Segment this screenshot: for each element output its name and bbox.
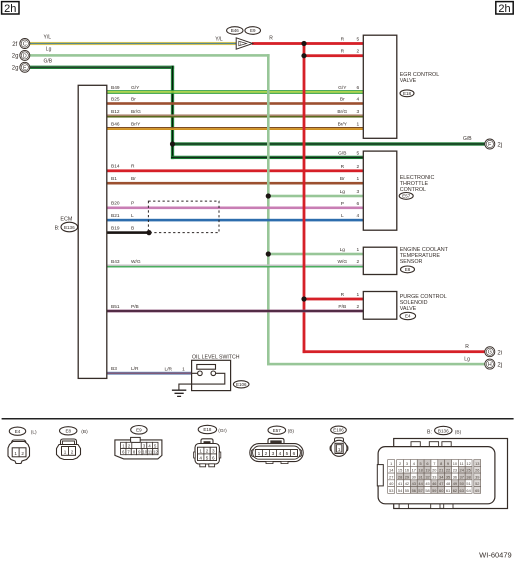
svg-text:2j: 2j	[497, 363, 502, 369]
wire L/R B3 to oil level switch pin 1	[107, 372, 192, 375]
wire Lg branch to coolant sensor pin 1	[268, 253, 363, 256]
junction dot R at EGR pin2 branch	[301, 53, 306, 58]
svg-text:G/Y: G/Y	[338, 85, 347, 91]
svg-text:18: 18	[418, 468, 422, 473]
wire Lg branch to throttle control pin 3	[268, 195, 363, 198]
oil level switch float bar	[197, 365, 216, 370]
svg-text:R: R	[341, 164, 345, 170]
svg-text:65: 65	[475, 488, 479, 493]
wire Br B25 to EGR valve pin 4	[107, 102, 364, 105]
wire Br/Y B46 to EGR valve pin 1	[107, 127, 364, 130]
svg-text:E106: E106	[236, 382, 247, 387]
svg-text:3: 3	[272, 451, 275, 457]
svg-text:8: 8	[440, 461, 442, 466]
svg-text:2: 2	[357, 259, 360, 265]
svg-text:R: R	[341, 292, 345, 298]
svg-text:2g: 2g	[12, 54, 19, 60]
svg-text:(Gr): (Gr)	[218, 428, 227, 434]
svg-text:WI-60479: WI-60479	[479, 551, 512, 560]
oval E4 bottom	[9, 427, 25, 435]
wire B B19 to shield	[107, 231, 150, 234]
svg-text:26: 26	[475, 468, 479, 473]
svg-text:Lg: Lg	[340, 189, 346, 195]
svg-text:53: 53	[389, 488, 393, 493]
svg-text:3: 3	[406, 461, 408, 466]
connector E9 drawing	[115, 437, 162, 459]
wire R B14 to throttle control pin 2	[107, 169, 364, 172]
svg-text:3: 3	[212, 449, 215, 454]
svg-text:1: 1	[338, 447, 341, 452]
ECM box	[78, 85, 107, 378]
svg-text:5: 5	[206, 455, 209, 460]
connector E106 drawing	[330, 438, 348, 457]
wire Br/G B12 to EGR valve pin 3	[107, 114, 364, 117]
svg-text:61: 61	[446, 488, 450, 493]
svg-text:E57: E57	[273, 428, 282, 433]
connector E8 drawing	[57, 439, 81, 460]
svg-text:2j: 2j	[497, 143, 502, 149]
svg-text:(B): (B)	[455, 429, 462, 435]
svg-text:Br: Br	[131, 176, 136, 182]
terminal C	[20, 39, 30, 49]
svg-text:6: 6	[426, 461, 428, 466]
svg-text:48: 48	[446, 481, 450, 486]
svg-text:15: 15	[398, 468, 402, 473]
svg-text:2: 2	[399, 461, 401, 466]
svg-text:1: 1	[240, 42, 242, 46]
svg-text:2h: 2h	[4, 3, 16, 15]
svg-text:52: 52	[475, 481, 479, 486]
wire P/B B51 to purge valve pin 2	[107, 310, 364, 313]
oval E57 bottom	[268, 426, 286, 434]
svg-text:R: R	[131, 164, 135, 170]
svg-text:E4: E4	[405, 314, 411, 319]
terminal H	[485, 359, 495, 369]
svg-text:37: 37	[460, 474, 464, 479]
svg-text:1: 1	[199, 449, 202, 454]
terminal E	[20, 62, 30, 72]
svg-text:28: 28	[398, 474, 402, 479]
wire L B21 to throttle control pin 4	[107, 219, 364, 222]
svg-text:R: R	[341, 37, 345, 43]
engine coolant temperature sensor label	[400, 247, 449, 265]
svg-text:Y/L: Y/L	[44, 35, 52, 41]
svg-text:(B): (B)	[288, 429, 295, 435]
svg-text:1: 1	[357, 122, 360, 128]
wire P B20 to throttle control pin 6	[107, 207, 364, 210]
svg-text:G/B: G/B	[44, 58, 53, 64]
purge control solenoid valve box	[363, 292, 397, 320]
oval E9 bottom	[131, 426, 147, 435]
svg-text:11: 11	[460, 461, 464, 466]
svg-text:THROTTLE: THROTTLE	[400, 181, 429, 187]
svg-text:C: C	[23, 42, 27, 48]
svg-text:Br: Br	[340, 176, 345, 182]
svg-text:2f: 2f	[12, 42, 17, 48]
oval E106 bottom	[331, 426, 347, 434]
svg-text:B1: B1	[111, 176, 117, 182]
svg-text:21: 21	[439, 468, 443, 473]
EGR control valve label	[400, 72, 440, 84]
terminal D	[20, 50, 30, 60]
svg-text:7: 7	[433, 461, 435, 466]
wire G/B to throttle control pin 5	[171, 156, 363, 159]
wire R from noise filter to EGR valve pin 5	[252, 42, 363, 45]
connector E57 drawing	[250, 438, 303, 463]
svg-text:B136: B136	[64, 225, 75, 230]
wire Y/L from connector C to noise filter	[30, 42, 237, 45]
wire R branch to purge valve pin 1	[304, 298, 363, 301]
svg-text:2: 2	[357, 304, 360, 310]
svg-text:2i: 2i	[497, 350, 502, 356]
grid label 2h top-left	[2, 2, 19, 15]
svg-text:59: 59	[432, 488, 436, 493]
svg-text:49: 49	[453, 481, 457, 486]
svg-text:1: 1	[390, 461, 392, 466]
svg-text:R: R	[269, 36, 273, 42]
svg-text:TEMPERATURE: TEMPERATURE	[400, 253, 441, 259]
svg-text:9: 9	[447, 461, 449, 466]
svg-text:B43: B43	[111, 259, 120, 265]
svg-text:E8: E8	[65, 428, 71, 433]
svg-text:B: B	[131, 226, 134, 232]
svg-text:5: 5	[420, 461, 422, 466]
svg-text:W/G: W/G	[338, 259, 348, 265]
svg-text:39: 39	[475, 474, 479, 479]
wire Lg from connector D	[30, 54, 270, 57]
grid label 2h top-right	[496, 2, 513, 15]
connector B136 drawing	[377, 439, 507, 509]
svg-text:L/R: L/R	[165, 367, 173, 373]
svg-text:P: P	[131, 201, 134, 207]
wire G/B vertical riser	[171, 66, 174, 159]
svg-text:16: 16	[405, 468, 409, 473]
wire R branch to EGR valve pin 2	[304, 54, 363, 57]
svg-text:B20: B20	[111, 201, 120, 207]
wire R vertical riser	[303, 42, 306, 353]
svg-text:G/B: G/B	[463, 136, 472, 142]
wire Lg to connector H	[267, 363, 485, 366]
svg-text:2h: 2h	[498, 3, 510, 15]
oval E4	[400, 312, 416, 319]
svg-text:57: 57	[418, 488, 422, 493]
svg-text:B25: B25	[111, 96, 120, 102]
svg-text:G: G	[488, 350, 492, 356]
junction dot R branch to purge valve	[301, 296, 306, 301]
separator line	[2, 418, 514, 420]
svg-text:Br/G: Br/G	[337, 109, 347, 115]
svg-text:1: 1	[357, 176, 360, 182]
oval E8	[401, 266, 415, 273]
connector E4 drawing	[8, 440, 30, 464]
svg-text:Br: Br	[340, 97, 345, 103]
svg-text:VALVE: VALVE	[400, 78, 417, 84]
svg-text:ELECTRONIC: ELECTRONIC	[400, 175, 435, 181]
svg-text:Lg: Lg	[464, 357, 470, 363]
svg-text:46: 46	[432, 481, 436, 486]
svg-text:2: 2	[265, 451, 268, 457]
svg-text:1: 1	[14, 451, 17, 456]
svg-text:EGR CONTROL: EGR CONTROL	[400, 72, 440, 78]
svg-text:33: 33	[432, 474, 436, 479]
oval E106	[233, 381, 249, 388]
svg-text:R: R	[465, 344, 469, 350]
svg-text:W/G: W/G	[131, 259, 141, 265]
svg-text:31: 31	[418, 474, 422, 479]
svg-text:Br/Y: Br/Y	[131, 121, 141, 127]
oval E57	[399, 193, 413, 200]
svg-text:22: 22	[446, 468, 450, 473]
shielded-cable dashed box	[148, 201, 219, 233]
oil level switch box	[192, 360, 231, 390]
svg-text:2: 2	[21, 451, 24, 456]
ECM connector ref B:B136	[55, 222, 78, 232]
in-line connector triangle B46/E9	[236, 38, 253, 49]
svg-text:Br: Br	[131, 96, 136, 102]
svg-text:Lg: Lg	[340, 247, 346, 253]
svg-text:51: 51	[466, 481, 470, 486]
svg-text:1: 1	[357, 247, 360, 253]
svg-text:Br/Y: Br/Y	[338, 122, 348, 128]
junction dot B19 shield connection	[146, 230, 151, 235]
svg-text:4: 4	[357, 97, 360, 103]
svg-text:Y/L: Y/L	[215, 36, 223, 42]
wire W/G B43 to coolant sensor pin 2	[107, 265, 364, 268]
svg-text:4: 4	[199, 455, 202, 460]
connector E18 drawing	[194, 439, 221, 467]
junction dot Lg branch to coolant sensor	[266, 251, 271, 256]
svg-text:E18: E18	[403, 91, 412, 96]
ground symbol	[172, 390, 186, 396]
svg-text:5: 5	[357, 150, 360, 156]
svg-text:D: D	[23, 53, 27, 59]
EGR control valve box	[363, 35, 397, 138]
oval B46	[227, 27, 243, 35]
oval E18	[400, 90, 414, 97]
svg-text:6: 6	[212, 455, 215, 460]
svg-text:E: E	[23, 65, 27, 71]
svg-text:VALVE: VALVE	[400, 306, 417, 312]
svg-text:12: 12	[153, 450, 158, 455]
svg-text:3: 3	[357, 109, 360, 115]
svg-text:42: 42	[405, 481, 409, 486]
svg-text:B19: B19	[111, 226, 120, 232]
svg-text:B14: B14	[111, 164, 120, 170]
wire Lg vertical riser	[267, 54, 270, 365]
svg-text:ECM: ECM	[60, 216, 72, 222]
svg-text:B46: B46	[111, 121, 120, 127]
svg-text:6: 6	[357, 201, 360, 207]
svg-text:Lg: Lg	[46, 47, 52, 53]
oil level switch contacts and internal wiring	[179, 371, 225, 390]
svg-text:L/R: L/R	[131, 366, 139, 372]
svg-text:36: 36	[453, 474, 457, 479]
svg-text:B51: B51	[111, 304, 120, 310]
svg-text:6: 6	[357, 85, 360, 91]
svg-text:Br/G: Br/G	[131, 109, 141, 115]
svg-text:47: 47	[439, 481, 443, 486]
svg-text:B:: B:	[427, 429, 432, 435]
oval E8 bottom	[59, 427, 76, 435]
electronic throttle control box	[363, 151, 397, 230]
wire R to connector G	[303, 350, 485, 353]
svg-text:E57: E57	[402, 194, 411, 199]
svg-text:E9: E9	[136, 427, 142, 432]
engine coolant temperature sensor box	[363, 247, 397, 274]
svg-text:43: 43	[412, 481, 416, 486]
svg-text:32: 32	[425, 474, 429, 479]
svg-text:45: 45	[425, 481, 429, 486]
svg-text:12: 12	[466, 461, 470, 466]
wire G/Y B49 to EGR valve pin 6	[107, 90, 364, 94]
svg-text:5: 5	[357, 37, 360, 43]
svg-text:5: 5	[286, 451, 289, 457]
svg-text:1: 1	[182, 367, 185, 373]
svg-text:55: 55	[405, 488, 409, 493]
svg-text:38: 38	[466, 474, 470, 479]
svg-text:P/B: P/B	[131, 304, 139, 310]
svg-text:B46: B46	[231, 28, 240, 33]
svg-text:E8: E8	[405, 267, 411, 272]
purge control solenoid valve label	[400, 294, 447, 312]
svg-text:1: 1	[357, 292, 360, 298]
svg-text:1: 1	[64, 450, 67, 455]
svg-text:G/B: G/B	[338, 150, 346, 156]
electronic throttle control label	[400, 175, 435, 193]
oval E9	[245, 27, 261, 35]
svg-text:35: 35	[446, 474, 450, 479]
wire Br B1 to throttle control pin 1	[107, 182, 364, 185]
svg-text:B21: B21	[111, 213, 120, 219]
wire G/B branch to connector F	[173, 142, 485, 145]
svg-text:SENSOR: SENSOR	[400, 259, 423, 265]
svg-text:63: 63	[460, 488, 464, 493]
junction dot R at EGR pin5 branch	[301, 41, 306, 46]
svg-text:B:: B:	[55, 225, 60, 231]
svg-text:2g: 2g	[12, 66, 19, 72]
svg-text:R: R	[341, 49, 345, 55]
svg-text:B49: B49	[111, 85, 120, 91]
svg-text:6: 6	[293, 451, 296, 457]
wire G/B from connector E	[30, 66, 175, 69]
junction dot G/B branch to F	[170, 141, 175, 146]
svg-text:E106: E106	[333, 428, 344, 433]
svg-text:62: 62	[453, 488, 457, 493]
svg-text:2: 2	[206, 449, 209, 454]
oval E18 bottom	[198, 425, 216, 433]
svg-text:3: 3	[357, 189, 360, 195]
svg-text:L: L	[131, 213, 134, 219]
svg-text:2: 2	[357, 164, 360, 170]
terminal G	[485, 347, 495, 357]
svg-text:2: 2	[357, 49, 360, 55]
svg-text:L: L	[341, 213, 344, 219]
svg-text:B136: B136	[438, 428, 449, 433]
svg-text:17: 17	[412, 468, 416, 473]
svg-text:P/B: P/B	[338, 304, 346, 310]
svg-text:41: 41	[398, 481, 402, 486]
svg-text:E18: E18	[203, 427, 212, 432]
svg-text:56: 56	[412, 488, 416, 493]
svg-text:ENGINE COOLANT: ENGINE COOLANT	[400, 247, 449, 253]
svg-text:27: 27	[389, 474, 393, 479]
svg-text:2: 2	[71, 450, 74, 455]
junction dot Lg branch to throttle pin 3	[266, 193, 271, 198]
svg-text:19: 19	[425, 468, 429, 473]
svg-text:58: 58	[425, 488, 429, 493]
svg-text:29: 29	[405, 474, 409, 479]
svg-text:25: 25	[466, 468, 470, 473]
svg-text:G/Y: G/Y	[131, 85, 140, 91]
svg-text:(B): (B)	[81, 429, 88, 435]
svg-text:H: H	[488, 362, 492, 368]
connector B136 labels	[427, 426, 462, 435]
svg-text:1: 1	[258, 451, 261, 457]
svg-text:13: 13	[475, 461, 479, 466]
svg-text:B3: B3	[111, 366, 117, 372]
svg-text:B12: B12	[111, 109, 120, 115]
svg-text:E9: E9	[250, 28, 256, 33]
svg-text:23: 23	[453, 468, 457, 473]
terminal F	[485, 139, 495, 149]
svg-text:4: 4	[357, 213, 360, 219]
svg-text:E4: E4	[15, 429, 21, 434]
svg-text:4: 4	[279, 451, 282, 457]
svg-text:(L): (L)	[31, 430, 37, 436]
svg-text:P: P	[341, 201, 344, 207]
